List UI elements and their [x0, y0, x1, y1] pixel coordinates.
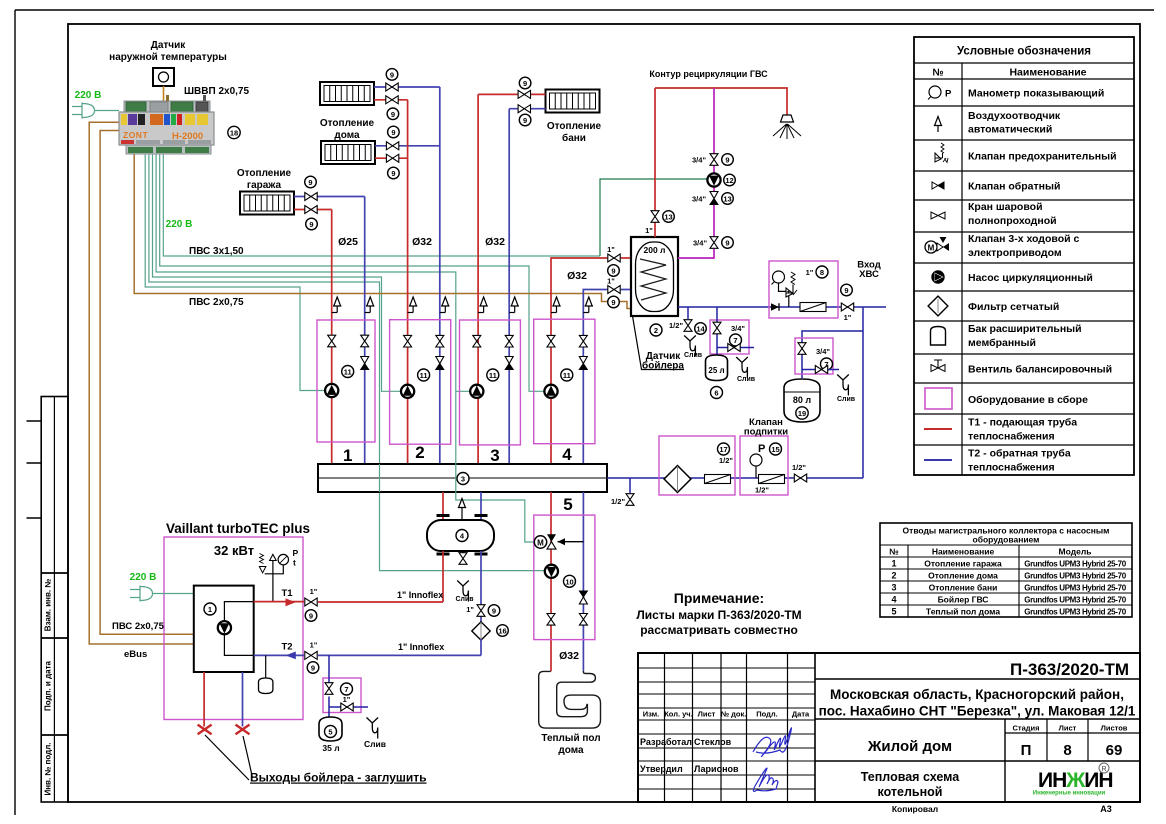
- wire to group 2 pump: [153, 154, 401, 391]
- check valve g2: [436, 357, 444, 370]
- expansion tank 35l: [319, 717, 342, 741]
- plug symbol 220V top: [72, 103, 95, 119]
- svg-text:11: 11: [420, 371, 428, 380]
- legend symbol expansion tank: [931, 327, 946, 346]
- signature 2: [753, 768, 778, 791]
- expansion vessel 35l group box: [323, 678, 361, 713]
- svg-text:9: 9: [725, 239, 729, 248]
- cold water main line: [678, 306, 886, 308]
- svg-text:дома: дома: [334, 130, 360, 141]
- valve g5 supply: [547, 614, 555, 626]
- pipe garage supply/return: [294, 196, 365, 198]
- node 9 house: [386, 69, 398, 81]
- valve garage supply: [305, 206, 317, 214]
- node 11 g1: [342, 366, 354, 378]
- group 5 risers: [550, 492, 552, 671]
- CW down to make-up: [862, 307, 864, 478]
- svg-text:ZONT: ZONT: [123, 130, 148, 140]
- svg-text:2: 2: [891, 571, 896, 581]
- valve g3 supply: [473, 335, 481, 347]
- svg-text:Условные обозначения: Условные обозначения: [957, 46, 1091, 58]
- pump 12 recirculation: [707, 173, 720, 186]
- svg-text:t: t: [293, 558, 296, 568]
- svg-text:1": 1": [310, 641, 318, 650]
- svg-text:Взам. инв. №: Взам. инв. №: [44, 579, 53, 632]
- svg-text:1" Innoflex: 1" Innoflex: [398, 642, 444, 652]
- valve banya return: [518, 105, 530, 113]
- svg-text:Лист: Лист: [1059, 724, 1077, 733]
- separator return down through filter: [480, 551, 482, 623]
- svg-text:220 В: 220 В: [75, 90, 102, 101]
- svg-text:11: 11: [489, 371, 497, 380]
- check valve g4: [579, 357, 587, 370]
- svg-text:Бойлер ГВС: Бойлер ГВС: [938, 595, 989, 605]
- node 10 g5: [564, 575, 576, 587]
- radiator garage: [240, 192, 294, 215]
- svg-text:гаража: гаража: [247, 180, 282, 191]
- svg-text:11: 11: [344, 368, 352, 377]
- svg-text:ХВС: ХВС: [859, 269, 879, 280]
- svg-text:Т2 - обратная труба: Т2 - обратная труба: [968, 448, 1071, 460]
- wire to group 5 pump: [149, 154, 545, 571]
- recirculation magenta line: [678, 88, 714, 258]
- svg-text:9: 9: [844, 286, 848, 295]
- svg-text:подпитки: подпитки: [744, 427, 788, 438]
- node 11 g4: [561, 369, 573, 381]
- svg-text:Grundfos UPM3 Hybrid 25-70: Grundfos UPM3 Hybrid 25-70: [1024, 584, 1126, 593]
- pump group 5 box: [534, 515, 595, 640]
- svg-text:9: 9: [390, 70, 394, 79]
- svg-text:1": 1": [466, 605, 474, 614]
- T1 line from boiler: [254, 601, 304, 603]
- legend symbol T2 line: [924, 459, 952, 461]
- check valve recirc: [710, 192, 718, 205]
- svg-text:Фильтр сетчатый: Фильтр сетчатый: [968, 301, 1059, 313]
- pump g3: [470, 385, 483, 398]
- svg-text:3: 3: [891, 583, 896, 593]
- svg-text:Отопление: Отопление: [237, 168, 292, 179]
- check valve g5: [579, 591, 587, 604]
- svg-text:Стеклов: Стеклов: [694, 737, 732, 747]
- controller ZONT H-2000: [119, 95, 214, 154]
- svg-text:Жилой дом: Жилой дом: [867, 738, 952, 755]
- svg-text:17: 17: [719, 445, 727, 454]
- svg-text:1": 1": [607, 277, 615, 286]
- svg-text:1/2": 1/2": [755, 486, 769, 495]
- valve tank return: [608, 286, 620, 294]
- riser group4 supply to boiler: [551, 258, 607, 464]
- title block: [638, 653, 1140, 802]
- collector: [318, 464, 607, 492]
- svg-text:1": 1": [607, 245, 615, 254]
- svg-text:32 кВт: 32 кВт: [214, 543, 254, 558]
- svg-text:10: 10: [565, 577, 573, 586]
- svg-text:Теплый пол: Теплый пол: [541, 733, 600, 744]
- floor heating coil: [539, 671, 601, 728]
- svg-text:котельной: котельной: [878, 785, 943, 799]
- pump g4: [544, 385, 557, 398]
- svg-text:Кран шаровой: Кран шаровой: [968, 201, 1043, 213]
- node 9 banya bottom: [519, 114, 531, 126]
- node 11 g3: [487, 369, 499, 381]
- node 11 g2: [418, 369, 430, 381]
- svg-text:1": 1": [645, 226, 653, 235]
- svg-text:Слив: Слив: [837, 396, 856, 403]
- make-up valve box 15: [740, 436, 788, 495]
- check valve g3: [505, 357, 513, 370]
- legend symbol manometer: [928, 86, 952, 100]
- svg-text:Листы марки П-363/2020-ТМ: Листы марки П-363/2020-ТМ: [636, 608, 801, 622]
- pump g2: [401, 385, 414, 398]
- svg-text:P: P: [758, 443, 765, 455]
- svg-text:5: 5: [563, 495, 572, 514]
- wire dark green to pump 12: [600, 179, 708, 256]
- svg-text:Изм.: Изм.: [643, 710, 660, 719]
- svg-text:12: 12: [725, 176, 733, 185]
- svg-text:Оборудование в сборе: Оборудование в сборе: [968, 394, 1088, 406]
- svg-text:1": 1": [310, 587, 318, 596]
- svg-text:1": 1": [806, 268, 814, 277]
- signature 1: [753, 728, 792, 757]
- svg-text:Grundfos UPM3 Hybrid 25-70: Grundfos UPM3 Hybrid 25-70: [1024, 560, 1126, 569]
- svg-text:мембранный: мембранный: [968, 337, 1036, 349]
- wire to group 3 pump: [156, 154, 470, 391]
- svg-text:P: P: [293, 548, 299, 558]
- svg-text:№: №: [889, 547, 899, 557]
- svg-text:Листов: Листов: [1101, 724, 1128, 733]
- svg-text:№ док.: № док.: [721, 710, 747, 719]
- radiator house lower: [321, 141, 375, 164]
- pump group 1 box: [317, 320, 375, 442]
- svg-text:1/2": 1/2": [792, 463, 806, 472]
- svg-text:Тепловая схема: Тепловая схема: [861, 770, 960, 784]
- svg-text:Отопление: Отопление: [547, 121, 602, 132]
- svg-text:Выходы бойлера - заглушить: Выходы бойлера - заглушить: [250, 771, 427, 785]
- separator bottom drain valve: [462, 551, 464, 553]
- svg-text:Слив: Слив: [737, 376, 756, 383]
- svg-text:6: 6: [714, 389, 718, 398]
- svg-text:T1: T1: [281, 588, 293, 599]
- svg-text:Теплый пол дома: Теплый пол дома: [926, 607, 1000, 617]
- svg-text:Слив: Слив: [455, 596, 474, 603]
- svg-text:Стадия: Стадия: [1012, 724, 1039, 733]
- svg-text:Модель: Модель: [1059, 547, 1092, 557]
- svg-text:3/4": 3/4": [816, 347, 830, 356]
- svg-text:1/2": 1/2": [669, 321, 683, 330]
- svg-text:220 В: 220 В: [130, 572, 157, 583]
- valve CW inlet: [841, 303, 853, 311]
- svg-text:П: П: [1021, 742, 1032, 759]
- legend symbol 3-way valve: [925, 237, 949, 253]
- svg-text:Насос циркуляционный: Насос циркуляционный: [968, 272, 1093, 284]
- valve tank supply: [608, 254, 620, 262]
- svg-text:Бак расширительный: Бак расширительный: [968, 323, 1082, 335]
- radiator house upper: [320, 82, 374, 105]
- svg-text:Клапан предохранительный: Клапан предохранительный: [968, 151, 1117, 163]
- node 18 controller: [228, 126, 240, 138]
- svg-text:5: 5: [328, 728, 332, 737]
- wire to group 1 pump: [145, 154, 325, 391]
- valve g4 return: [579, 335, 587, 347]
- valve recirc top: [710, 154, 718, 166]
- check valve CW: [771, 303, 779, 311]
- wire sensor to controller: [163, 86, 165, 104]
- air vents on riser tops: [332, 297, 593, 313]
- valve g1 return: [361, 335, 369, 347]
- svg-text:5: 5: [891, 607, 896, 617]
- node 1 boiler: [204, 603, 216, 615]
- riser group4 return from boiler: [583, 290, 607, 465]
- drain after 35l: [367, 718, 379, 739]
- svg-text:14: 14: [696, 325, 705, 334]
- svg-text:Воздухоотводчик: Воздухоотводчик: [968, 110, 1061, 122]
- svg-text:оборудованием: оборудованием: [973, 535, 1040, 545]
- svg-text:16: 16: [498, 627, 506, 636]
- legend symbol safety valve: [935, 143, 948, 163]
- boiler pump: [218, 621, 231, 634]
- svg-text:1/2": 1/2": [719, 456, 733, 465]
- valve g4 supply: [547, 335, 555, 347]
- riser group1 return: [364, 197, 366, 465]
- valve g1 supply: [328, 335, 336, 347]
- svg-text:№: №: [932, 68, 943, 79]
- T2 line to boiler: [254, 654, 304, 656]
- pump group 2 box: [390, 320, 451, 445]
- valve recirc bottom: [710, 237, 718, 249]
- branch to 80l tank: [802, 331, 863, 378]
- svg-text:Слив: Слив: [684, 352, 703, 359]
- shower symbol: [773, 115, 801, 139]
- svg-text:13: 13: [723, 195, 731, 204]
- legend symbol strainer: [928, 296, 948, 316]
- make-up filter box 17: [659, 436, 735, 495]
- wire brown to boiler tank sensor: [134, 154, 631, 309]
- svg-text:13: 13: [664, 213, 672, 222]
- svg-text:11: 11: [563, 371, 571, 380]
- separator flanges: [437, 515, 450, 517]
- riser group3 return: [508, 109, 510, 464]
- svg-text:Вентиль балансировочный: Вентиль балансировочный: [968, 364, 1112, 376]
- svg-text:Ø25: Ø25: [338, 236, 358, 248]
- svg-text:Утвердил: Утвердил: [640, 764, 683, 774]
- boiler body: [194, 586, 254, 672]
- condensate siphon: [265, 655, 267, 678]
- valve g2 supply: [404, 335, 412, 347]
- svg-text:3/4": 3/4": [692, 156, 706, 165]
- svg-text:7: 7: [344, 685, 348, 694]
- svg-text:Подл.: Подл.: [756, 710, 777, 719]
- svg-text:7: 7: [733, 336, 737, 345]
- left column strip tables: [27, 397, 69, 803]
- 80l group box: [795, 338, 833, 374]
- svg-text:1" Innoflex: 1" Innoflex: [397, 590, 443, 600]
- svg-text:1": 1": [343, 695, 351, 704]
- svg-text:Наименование: Наименование: [932, 547, 995, 557]
- leader tank sensor: [633, 316, 685, 370]
- expansion tank 25l: [706, 355, 728, 381]
- separator air vent: [461, 514, 463, 520]
- svg-text:Отопление дома: Отопление дома: [928, 571, 998, 581]
- svg-text:Т1 - подающая труба: Т1 - подающая труба: [968, 417, 1077, 429]
- svg-text:35 л: 35 л: [322, 743, 339, 753]
- node 9 banya top: [519, 77, 531, 89]
- svg-text:9: 9: [308, 178, 312, 187]
- legend symbol pump: [932, 271, 944, 283]
- legend symbol check valve: [932, 182, 944, 189]
- Vaillant boiler assembly box: [164, 537, 303, 720]
- wire brown eBus to Vaillant: [89, 122, 194, 644]
- svg-text:Отопление гаража: Отопление гаража: [924, 559, 1002, 569]
- pump schedule table: [880, 523, 1132, 617]
- svg-text:80 л: 80 л: [793, 395, 812, 405]
- wire to group 5 motor valve: [456, 391, 535, 542]
- svg-text:9: 9: [492, 607, 496, 616]
- svg-text:Клапан 3-х ходовой с: Клапан 3-х ходовой с: [968, 233, 1079, 245]
- svg-text:Контур рециркуляции ГВС: Контур рециркуляции ГВС: [649, 69, 768, 79]
- svg-text:пос. Нахабино СНТ "Березка", у: пос. Нахабино СНТ "Березка", ул. Маковая…: [819, 704, 1136, 719]
- wire 220V to controller: [94, 110, 119, 112]
- make-up valve: [794, 474, 806, 482]
- node 3 collector: [457, 473, 469, 485]
- wire 220V to boiler: [153, 593, 194, 595]
- svg-text:Отопление: Отопление: [320, 118, 375, 129]
- svg-text:eBus: eBus: [124, 649, 147, 660]
- hydraulic separator stubs: [442, 492, 444, 520]
- safety valve symbol: [786, 272, 797, 297]
- valve house 1 return: [386, 83, 398, 91]
- wire to recirculation pump and boiler pipe sensor: [163, 154, 600, 256]
- pipes banya: [478, 93, 545, 95]
- node 2 tank: [650, 324, 662, 336]
- svg-text:3/4": 3/4": [731, 324, 745, 333]
- legend symbol assembled equipment: [925, 388, 952, 409]
- expansion tank 80l: [784, 379, 820, 422]
- svg-text:П-363/2020-ТМ: П-363/2020-ТМ: [1010, 660, 1129, 679]
- svg-text:8: 8: [1063, 742, 1071, 759]
- svg-text:18: 18: [230, 129, 238, 138]
- wire brown PVS to Vaillant: [100, 131, 194, 635]
- DHW tank 200l: [631, 237, 678, 316]
- svg-text:9: 9: [391, 169, 395, 178]
- svg-text:дома: дома: [558, 745, 584, 756]
- svg-text:Ø32: Ø32: [412, 236, 432, 248]
- svg-text:8: 8: [820, 268, 824, 277]
- valve g3 return: [505, 335, 513, 347]
- riser group3 supply: [477, 94, 479, 464]
- svg-text:Инв. № подл.: Инв. № подл.: [44, 742, 53, 795]
- svg-text:ПВС 2х0,75: ПВС 2х0,75: [112, 621, 165, 632]
- svg-text:3/4": 3/4": [693, 239, 707, 248]
- node 9 garage bottom: [306, 218, 318, 230]
- svg-text:220 В: 220 В: [166, 219, 193, 230]
- riser group2 supply: [407, 100, 409, 464]
- svg-text:Слив: Слив: [364, 739, 386, 749]
- valve house 2 supply: [386, 154, 398, 162]
- make-up water line: [607, 477, 863, 479]
- svg-text:полнопроходной: полнопроходной: [968, 215, 1057, 227]
- svg-text:9: 9: [311, 664, 315, 673]
- svg-text:наружной температуры: наружной температуры: [109, 52, 227, 63]
- CW inlet group box 8: [769, 261, 838, 318]
- valve g5 return: [579, 614, 587, 626]
- svg-text:P: P: [945, 89, 952, 100]
- pump g1: [325, 384, 338, 397]
- svg-text:3: 3: [490, 446, 499, 465]
- svg-text:электроприводом: электроприводом: [968, 247, 1062, 259]
- pump group 3 box: [460, 320, 521, 445]
- svg-text:рассматривать совместно: рассматривать совместно: [640, 623, 798, 637]
- svg-text:Кол. уч.: Кол. уч.: [664, 710, 693, 719]
- svg-text:4: 4: [562, 445, 572, 464]
- riser group2 return: [439, 87, 441, 464]
- leader lines to label: [205, 735, 253, 780]
- svg-text:9: 9: [611, 267, 615, 276]
- wire to group 4 pump: [160, 154, 545, 391]
- pressure reducer CW: [800, 303, 826, 312]
- svg-text:9: 9: [391, 128, 395, 137]
- svg-text:Vaillant turboTEC plus: Vaillant turboTEC plus: [166, 521, 310, 536]
- pump group 4 box: [534, 319, 595, 444]
- valve house 1 supply: [386, 96, 398, 104]
- legend table Условные обозначения: [914, 37, 1134, 475]
- svg-text:Примечание:: Примечание:: [674, 590, 764, 606]
- svg-text:Разработал: Разработал: [640, 737, 692, 747]
- svg-text:3/4": 3/4": [692, 195, 706, 204]
- svg-text:Ø32: Ø32: [559, 650, 579, 662]
- svg-text:9: 9: [725, 156, 729, 165]
- riser group1 supply: [331, 210, 333, 465]
- pipes house radiators: [374, 87, 440, 146]
- svg-text:ШВВП 2х0,75: ШВВП 2х0,75: [184, 86, 249, 97]
- svg-text:Ø32: Ø32: [567, 270, 587, 282]
- svg-text:1: 1: [208, 605, 212, 614]
- svg-text:200 л: 200 л: [644, 245, 666, 255]
- node 4 separator: [456, 530, 468, 542]
- svg-text:теплоснабжения: теплоснабжения: [968, 462, 1055, 474]
- svg-text:Grundfos UPM3 Hybrid 25-70: Grundfos UPM3 Hybrid 25-70: [1024, 608, 1126, 617]
- svg-text:Наименование: Наименование: [1009, 67, 1086, 79]
- svg-text:M: M: [537, 538, 544, 547]
- svg-text:Grundfos UPM3 Hybrid 25-70: Grundfos UPM3 Hybrid 25-70: [1024, 596, 1126, 605]
- svg-text:M: M: [928, 244, 935, 253]
- collector drain stub: [629, 478, 631, 493]
- svg-text:15: 15: [771, 445, 779, 454]
- svg-text:1: 1: [891, 559, 896, 569]
- plug symbol 220V vaillant: [130, 586, 153, 602]
- svg-text:Ларионов: Ларионов: [694, 764, 739, 774]
- svg-text:автоматический: автоматический: [968, 124, 1052, 136]
- svg-text:Инженерные инновации: Инженерные инновации: [1033, 791, 1106, 797]
- separator supply down to T1: [442, 551, 444, 602]
- hydraulic separator: [427, 520, 494, 551]
- svg-text:Подп. и дата: Подп. и дата: [44, 660, 53, 710]
- check valve g1: [361, 357, 369, 370]
- svg-text:Дата: Дата: [792, 710, 810, 719]
- valve g2 return: [436, 335, 444, 347]
- node 9 garage top: [305, 176, 317, 188]
- svg-text:Копировал: Копировал: [892, 804, 938, 814]
- DHW recirculation top: [654, 88, 656, 237]
- pump g5: [545, 565, 558, 578]
- svg-text:теплоснабжения: теплоснабжения: [968, 431, 1055, 443]
- expansion 25l group box: [710, 320, 749, 354]
- INZHIN logo: [1033, 763, 1113, 797]
- three-way valve with motor g5: [534, 534, 583, 549]
- valve garage return: [305, 193, 317, 201]
- svg-text:Датчик: Датчик: [151, 40, 187, 51]
- svg-text:9: 9: [391, 110, 395, 119]
- valve banya supply: [518, 90, 530, 98]
